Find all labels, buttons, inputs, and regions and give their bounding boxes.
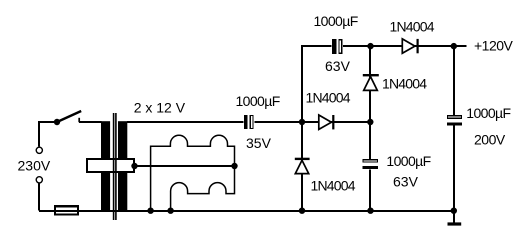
capacitor C2 minus plate (338, 39, 342, 54)
fuse F1 (55, 206, 78, 214)
wire mains left vertical top (39, 122, 55, 147)
switch S1 fixed contact tick (78, 118, 80, 122)
svg-text:35V: 35V (246, 135, 272, 151)
node bottom rail D4 (299, 208, 305, 214)
diode D1 1N4004 (top rail) triangle (402, 39, 415, 53)
wire mains left vertical bottom (38, 184, 40, 211)
svg-text:1N4004: 1N4004 (390, 18, 435, 34)
capacitor C4 minus plate (447, 115, 462, 119)
svg-text:1N4004: 1N4004 (311, 178, 356, 194)
capacitor C3 minus plate (362, 159, 378, 163)
svg-text:1000µF: 1000µF (386, 153, 430, 169)
wire vertical branch D3 lower (301, 122, 303, 210)
capacitor C2 1000uF 63V (top) gap mask (332, 38, 343, 55)
diode D3 cathode bar (332, 115, 334, 129)
svg-text:1N4004: 1N4004 (382, 76, 427, 92)
node bottom rail C3 (367, 208, 373, 214)
svg-text:200V: 200V (474, 131, 506, 147)
wire bottom rail (39, 210, 454, 212)
svg-text:1000µF: 1000µF (314, 13, 358, 29)
svg-text:63V: 63V (393, 174, 419, 190)
capacitor C1 1000uF 35V gap mask (243, 114, 254, 130)
capacitor C3 plus plate (362, 166, 378, 169)
wire center tap rail (135, 165, 235, 167)
terminal circle upper 230V (36, 147, 42, 153)
capacitor C1 minus plate (250, 115, 254, 129)
transformer TR1 primary winding bar (101, 121, 110, 210)
transformer TR1 secondary winding bar (118, 121, 127, 210)
diode D1 cathode bar (417, 39, 419, 53)
svg-text:2 x 12 V: 2 x 12 V (134, 99, 186, 115)
wire mid rail from transformer to cap 1000uF 35V (127, 121, 244, 123)
svg-text:1000µF: 1000µF (466, 105, 510, 121)
node mid rail left (299, 119, 305, 125)
node windings junction (231, 163, 237, 169)
ground symbol (448, 222, 462, 225)
wire mid rail from cap to diode node (253, 121, 370, 123)
node bottom rail L2 (167, 208, 173, 214)
node bottom rail output (451, 208, 457, 214)
node center tap at transformer (131, 163, 137, 169)
terminal circle lower 230V (36, 177, 42, 183)
diode D3 1N4004 (mid rail horizontal) triangle (319, 115, 332, 129)
capacitor C1 plus plate (244, 115, 248, 129)
diode D4 1N4004 (vertical lower) cathode bar (295, 158, 310, 160)
diode D4 triangle (295, 160, 308, 173)
transformer TR1 core line left (113, 113, 115, 220)
svg-text:1N4004: 1N4004 (306, 90, 351, 106)
secondary winding L1 (upper 12V) (151, 135, 235, 210)
transformer TR1 bobbin divider band (87, 159, 134, 172)
secondary winding L2 (lower 12V) (171, 166, 235, 210)
node bottom rail L1 (147, 208, 153, 214)
svg-text:63V: 63V (325, 58, 351, 74)
wire top rail +120V from node over diode to output (302, 46, 467, 122)
node top rail right (+120V takeoff) (451, 43, 457, 49)
capacitor C4 1000uF 200V (output) gap mask (447, 115, 463, 126)
switch S1 pivot dot (54, 119, 60, 125)
switch S1 lever (57, 111, 81, 122)
wire vertical branch D2/C2 (369, 46, 371, 210)
svg-text:230V: 230V (18, 158, 51, 174)
transformer TR1 core line right (115, 113, 117, 220)
node mid rail right (367, 119, 373, 125)
node top rail left (367, 43, 373, 49)
wire switch to transformer (79, 121, 101, 123)
svg-text:1000µF: 1000µF (236, 93, 280, 109)
capacitor C3 1000uF 63V (vertical) gap mask (362, 159, 379, 170)
capacitor C2 plus plate (332, 39, 336, 54)
diode D2 triangle (364, 77, 378, 91)
wire output branch vertical (453, 46, 455, 222)
capacitor C4 plus plate (447, 122, 462, 125)
diode D2 1N4004 (vertical upper) cathode bar (363, 74, 379, 76)
svg-text:+120V: +120V (474, 38, 514, 54)
